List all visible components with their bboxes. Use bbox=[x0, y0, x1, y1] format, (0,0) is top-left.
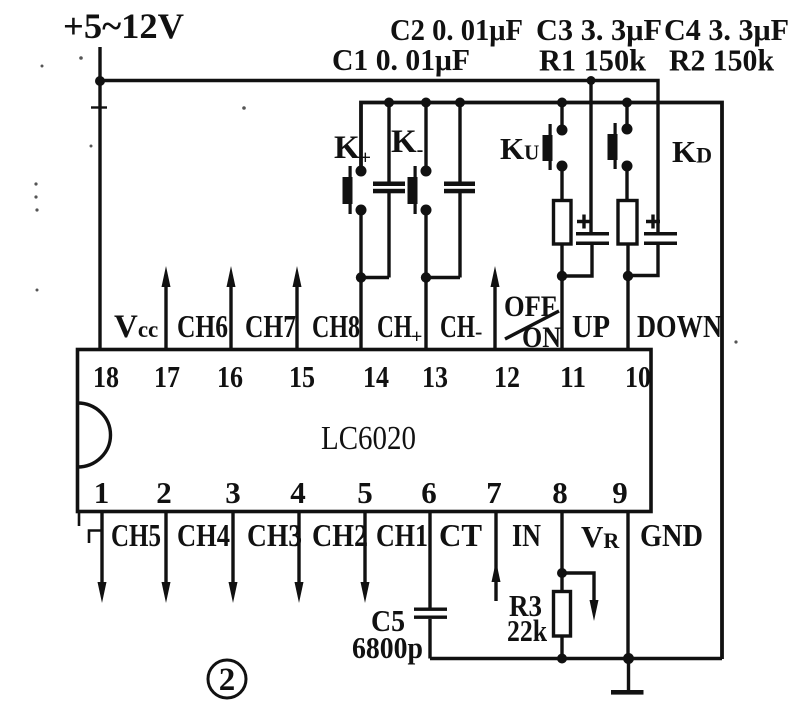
svg-text:10: 10 bbox=[625, 359, 651, 394]
svg-text:1: 1 bbox=[94, 475, 110, 510]
wire: K+ bottom to pin 14 bbox=[359, 210, 362, 349]
svg-text:18: 18 bbox=[93, 359, 119, 394]
svg-text:3: 3 bbox=[225, 475, 241, 510]
IC left edge stub bbox=[78, 512, 81, 526]
wire: K+/C1 bottom connector bbox=[361, 276, 389, 279]
svg-text:16: 16 bbox=[217, 359, 243, 394]
wire: R1/C3 bottom connector bbox=[562, 245, 592, 276]
svg-text:GND: GND bbox=[640, 517, 703, 553]
capacitor C1 bbox=[373, 103, 405, 278]
wire: R3 bottom bbox=[560, 636, 563, 659]
svg-text:KD: KD bbox=[672, 134, 712, 169]
wire: KD to R2 bbox=[625, 166, 628, 201]
wire: R1 bottom to pin 11 bbox=[560, 244, 563, 349]
svg-text:4: 4 bbox=[290, 475, 306, 510]
pin 1 wire arrow CH5 bbox=[98, 512, 107, 603]
wire: power rail horizontal to C4 drop bbox=[100, 81, 658, 233]
svg-text:CH5: CH5 bbox=[111, 517, 161, 553]
svg-text:17: 17 bbox=[154, 359, 180, 394]
junction: K+/C1 bottom bbox=[356, 272, 366, 282]
ground symbol bbox=[611, 659, 644, 695]
svg-text:KU: KU bbox=[500, 131, 539, 166]
wire: K-/C2 bottom connector bbox=[426, 276, 460, 279]
svg-text:8: 8 bbox=[552, 475, 568, 510]
pin 3 wire arrow CH3 bbox=[229, 512, 238, 603]
pushbutton K+ bbox=[343, 166, 367, 216]
svg-text:CH4: CH4 bbox=[177, 517, 230, 553]
svg-text:CH: CH bbox=[440, 308, 475, 344]
svg-text:C4 3. 3μF: C4 3. 3μF bbox=[664, 12, 789, 47]
svg-text:-: - bbox=[475, 319, 482, 344]
wire: ground bus with right rail bbox=[361, 103, 722, 660]
svg-text:13: 13 bbox=[422, 359, 448, 394]
pin 15 arrow wire CH8 bbox=[293, 266, 302, 349]
pushbutton K- bbox=[408, 103, 432, 216]
junction: KD top on bus bbox=[622, 98, 632, 108]
svg-text:7: 7 bbox=[486, 475, 502, 510]
junction: pin 8 / R3 top bbox=[557, 568, 567, 578]
junction: K-/C2 bottom bbox=[421, 272, 431, 282]
svg-text:15: 15 bbox=[289, 359, 315, 394]
svg-text:K-: K- bbox=[391, 124, 423, 161]
junction: R2/C4 bottom bbox=[623, 271, 633, 281]
svg-text:Vcc: Vcc bbox=[114, 309, 158, 345]
junction: pin 9 on ground line bbox=[623, 653, 634, 664]
svg-text:6800p: 6800p bbox=[352, 630, 423, 665]
junction: C1 top on bus bbox=[384, 98, 394, 108]
svg-text:UP: UP bbox=[572, 308, 610, 344]
svg-text:R1 150k: R1 150k bbox=[539, 43, 647, 78]
svg-text:9: 9 bbox=[612, 475, 628, 510]
svg-text:+5~12V: +5~12V bbox=[63, 6, 184, 46]
IC notch bbox=[78, 403, 111, 467]
svg-text:2: 2 bbox=[219, 662, 236, 698]
svg-text:5: 5 bbox=[357, 475, 373, 510]
pin 5 wire arrow CH1 bbox=[361, 512, 370, 603]
pin 1 hook mark bbox=[89, 531, 101, 544]
junction: C2 top on bus bbox=[455, 98, 465, 108]
svg-text:IN: IN bbox=[512, 517, 541, 553]
wire: KU to R1 bbox=[560, 166, 563, 201]
junction: R3 bottom on ground line bbox=[557, 654, 567, 664]
junction: power rail tap bbox=[95, 76, 105, 86]
label OFF/ON bbox=[504, 290, 561, 354]
svg-text:C2 0. 01μF: C2 0. 01μF bbox=[390, 12, 523, 47]
pin 16 arrow wire CH7 bbox=[227, 266, 236, 349]
pin 8 wire to R3 bbox=[560, 512, 563, 592]
capacitor C3 (electrolytic) bbox=[576, 215, 609, 246]
svg-text:+: + bbox=[411, 326, 422, 348]
svg-text:VR: VR bbox=[581, 519, 620, 554]
wire: R2/C4 bottom connector bbox=[628, 245, 658, 276]
svg-text:LC6020: LC6020 bbox=[321, 420, 416, 457]
svg-text:6: 6 bbox=[421, 475, 437, 510]
junction: C3 feed on power rail bbox=[587, 76, 596, 85]
resistor R3 bbox=[554, 592, 571, 637]
svg-text:DOWN: DOWN bbox=[637, 308, 722, 344]
svg-text:CT: CT bbox=[439, 517, 482, 553]
svg-text:14: 14 bbox=[363, 359, 389, 394]
wire: R2 bottom to pin 10 bbox=[626, 244, 629, 349]
pin 7 wire arrow IN bbox=[492, 512, 501, 601]
wire: C3 feed drop bbox=[589, 81, 592, 233]
capacitor C5 bbox=[414, 608, 447, 659]
wire: K- bottom to pin 13 bbox=[424, 210, 427, 349]
resistor R1 bbox=[554, 201, 572, 245]
svg-text:C3 3. 3μF: C3 3. 3μF bbox=[536, 12, 662, 47]
capacitor C2 bbox=[444, 103, 475, 278]
scan specks bbox=[34, 56, 737, 343]
IC body LC6020 bbox=[78, 350, 652, 512]
svg-text:R2 150k: R2 150k bbox=[669, 43, 775, 78]
svg-text:C1 0. 01μF: C1 0. 01μF bbox=[332, 42, 470, 77]
tick mark on power wire bbox=[91, 106, 107, 108]
svg-text:CH8: CH8 bbox=[312, 308, 360, 344]
junction: KU top on bus bbox=[557, 98, 567, 108]
figure number 2 bbox=[208, 660, 246, 698]
svg-text:CH7: CH7 bbox=[245, 308, 296, 344]
junction: R1/C3 bottom bbox=[557, 271, 567, 281]
pin 6 wire to C5 bbox=[428, 512, 431, 608]
pin 17 arrow wire CH6 bbox=[162, 266, 171, 349]
wire: VR branch with down arrow bbox=[562, 573, 599, 621]
svg-text:K+: K+ bbox=[334, 130, 371, 169]
svg-text:CH3: CH3 bbox=[247, 517, 302, 553]
pushbutton KU bbox=[543, 103, 568, 172]
svg-text:CH6: CH6 bbox=[177, 308, 228, 344]
pin 4 wire arrow CH2 bbox=[295, 512, 304, 603]
svg-text:22k: 22k bbox=[507, 613, 548, 648]
pushbutton KD bbox=[608, 103, 633, 172]
svg-text:11: 11 bbox=[560, 359, 586, 394]
wire: power vertical to pin 18 Vcc bbox=[98, 47, 101, 349]
pin 12 arrow wire OFF/ON bbox=[491, 266, 500, 349]
svg-text:CH: CH bbox=[377, 308, 412, 344]
resistor R2 bbox=[618, 201, 637, 245]
svg-text:CH1: CH1 bbox=[376, 517, 428, 553]
svg-text:CH2: CH2 bbox=[312, 517, 368, 553]
pin 2 wire arrow CH4 bbox=[162, 512, 171, 603]
svg-text:12: 12 bbox=[494, 359, 520, 394]
wire: bottom ground line bbox=[430, 657, 722, 660]
pin 9 wire GND bbox=[626, 512, 629, 659]
svg-text:2: 2 bbox=[156, 475, 172, 510]
capacitor C4 (electrolytic) bbox=[644, 215, 677, 246]
junction: K- top on bus bbox=[421, 98, 431, 108]
